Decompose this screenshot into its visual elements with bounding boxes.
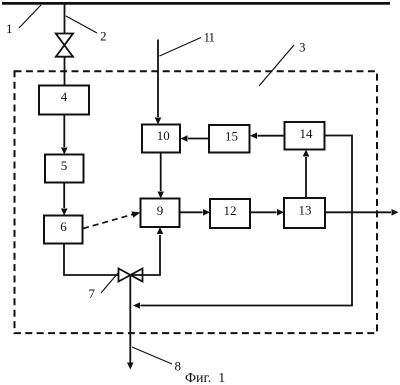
block 5 [45,155,84,183]
svg-text:14: 14 [300,126,314,141]
svg-text:10: 10 [157,128,170,143]
wire 13 to outlet arrow [325,209,399,216]
arrow 13 to 14 [303,150,310,199]
dashed boundary 3 [15,71,378,333]
valve 7 (horizontal bowtie) [119,269,143,282]
block 13 [284,198,325,228]
svg-text:13: 13 [299,203,312,218]
arrow 12 to 13 [250,209,284,216]
label 3 leader [259,45,294,86]
svg-text:11: 11 [204,30,215,45]
arrow 10 to 9 [157,153,164,199]
feedback wire 14 right, down, left into outlet line [133,136,352,309]
block 10 [142,125,180,153]
label 1 leader [19,5,41,28]
dashed arrow 6 to 9 [83,211,141,228]
label 11 leader [160,38,202,57]
label 3 [299,40,306,55]
label 8 [175,359,182,374]
wire valve2 to box4 [64,57,66,87]
block 15 [209,125,250,153]
svg-text:4: 4 [61,89,68,104]
block 6 [44,216,83,244]
svg-text:2: 2 [100,29,107,44]
arrow 9 to 12 [180,209,211,216]
wire 2 (vertical from pipeline to valve) [64,4,66,35]
svg-text:1: 1 [6,21,13,36]
pipeline 1 (top horizontal line) [2,2,390,5]
block 9 [141,199,180,228]
block 14 [285,122,325,150]
inlet line 11 [155,40,162,125]
valve 2 (vertical bowtie) [56,34,73,57]
svg-text:8: 8 [175,359,182,374]
block 12 [210,199,250,228]
wire 6 down and right to valve 7 [64,244,119,276]
wire valve7 down to outlet 8 [127,275,134,370]
wire valve7 right up into block 9 [131,227,164,275]
label 7 [89,286,96,301]
arrow 15 to 10 [181,135,210,142]
svg-text:9: 9 [157,203,164,218]
label 7 leader [101,273,118,293]
label 8 leader [132,347,172,364]
caption Фиг. 1 [185,371,225,385]
label 2 [100,29,107,44]
block 4 [39,86,89,115]
svg-text:5: 5 [61,158,68,173]
svg-text:12: 12 [224,203,237,218]
arrow 4 to 5 [61,115,68,155]
label 11 [204,30,215,45]
label 1 [6,21,13,36]
arrow 5 to 6 [61,183,68,216]
svg-text:3: 3 [299,40,306,55]
svg-text:7: 7 [89,286,96,301]
arrow 14 to 15 [250,132,285,139]
svg-text:6: 6 [60,219,67,234]
svg-text:Фиг. 1: Фиг. 1 [185,371,225,385]
svg-text:15: 15 [225,128,238,143]
label 2 leader [66,16,97,33]
